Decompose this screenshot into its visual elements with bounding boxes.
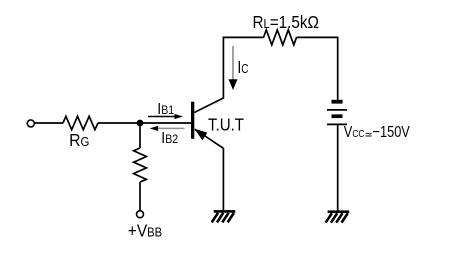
emitter wire	[195, 129, 223, 210]
current arrow IB2	[150, 126, 185, 131]
wire input to RG	[35, 122, 63, 124]
collector wire	[194, 37, 223, 113]
resistor RG	[63, 116, 98, 129]
resistor RL	[264, 30, 297, 45]
node (junction dot)	[137, 120, 144, 127]
transistor U1 T.U.T base bar	[191, 102, 194, 139]
wire resistor to VBB terminal	[139, 182, 141, 211]
current arrow IC	[229, 46, 238, 90]
wire top rail left	[223, 36, 264, 38]
wire node to bias resistor	[139, 123, 141, 148]
ground (emitter)	[212, 210, 236, 222]
emitter arrow (points to base)	[194, 129, 207, 141]
terminal +VBB	[137, 211, 144, 218]
input terminal	[27, 120, 34, 127]
wire right vertical to battery	[337, 37, 339, 100]
battery VCC	[327, 100, 347, 125]
ground (VCC)	[326, 210, 350, 222]
current arrow IB1	[148, 114, 183, 119]
wire top rail right	[297, 36, 339, 38]
wire RG to base	[98, 122, 191, 124]
resistor (VBB bias)	[134, 148, 147, 182]
svg-text:RL=1.5kΩ: RL=1.5kΩ	[253, 12, 319, 32]
svg-text:T.U.T: T.U.T	[208, 114, 244, 135]
wire battery to ground	[337, 125, 339, 211]
